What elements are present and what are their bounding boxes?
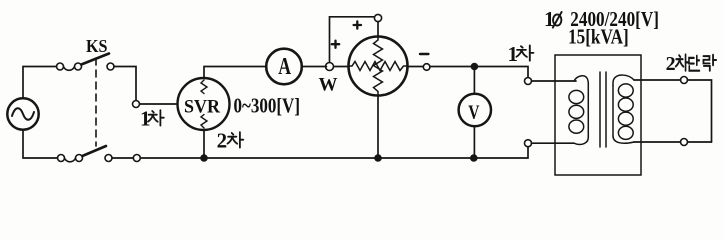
transformer secondary coil top hook	[613, 75, 634, 85]
transformer box	[555, 55, 641, 175]
terminal secondary top	[681, 77, 688, 84]
transformer secondary coil return line	[612, 86, 614, 137]
wire to V junction and transformer corner	[430, 67, 528, 78]
wire squiggle top	[64, 67, 75, 71]
switch KS top pole pivot	[75, 63, 82, 70]
label plus left of wattmeter	[332, 41, 339, 48]
wire secondary top out of box	[634, 79, 681, 81]
wire W right	[408, 66, 424, 68]
svg-text:2: 2	[217, 129, 228, 153]
terminal 1cha SVR input	[133, 101, 140, 108]
wire to SVR left	[140, 103, 178, 105]
switch KS linkage dashed	[95, 58, 97, 146]
transformer secondary coil loop 2	[618, 98, 633, 111]
transformer secondary coil loop 3	[618, 112, 633, 125]
wire V bottom to rail	[473, 126, 475, 158]
wire SVR bottom	[203, 130, 205, 158]
ac source G	[7, 98, 38, 129]
svg-text:A: A	[278, 54, 291, 80]
svg-text:1: 1	[140, 106, 151, 130]
label 2cha danrak secondary short	[666, 53, 716, 75]
label 1cha at SVR input	[140, 106, 164, 130]
junction V top	[471, 63, 479, 71]
wattmeter left terminal +	[326, 63, 334, 71]
wire secondary bottom out of box	[634, 141, 681, 143]
wire voltage terminal down to W top	[377, 22, 379, 37]
switch KS bottom contact 2	[105, 155, 112, 162]
wattmeter voltage branch wire	[330, 17, 375, 63]
transformer primary coil loop 3	[569, 120, 584, 133]
svg-text:2: 2	[666, 53, 676, 75]
svg-text:KS: KS	[86, 36, 108, 56]
wire V junction down	[473, 67, 475, 94]
wattmeter vertical zigzag	[374, 37, 383, 96]
wire W bottom to rail	[377, 96, 379, 159]
junction W bottom	[374, 154, 382, 162]
switch KS bottom pole contact 1	[58, 155, 65, 162]
terminal transformer primary bottom	[525, 140, 532, 147]
wire bottom rail W to transformer corner	[378, 147, 528, 158]
wire terminal to W	[334, 66, 349, 68]
switch KS top pole contact 1	[57, 63, 64, 70]
ac source sine	[12, 108, 34, 120]
SVR circle U1	[178, 78, 230, 130]
transformer core line 2	[605, 72, 607, 147]
voltmeter V	[459, 94, 491, 126]
terminal bottom SVR input	[133, 155, 140, 162]
wire primary top into box	[532, 80, 577, 82]
SVR lower squiggle	[201, 115, 207, 129]
wire secondary top to short link	[688, 80, 712, 142]
wattmeter horizontal zigzag	[349, 62, 408, 71]
wire top to SVR corner	[114, 67, 136, 101]
transformer secondary coil bottom hook	[613, 136, 634, 143]
transformer primary coil return line	[587, 86, 589, 137]
label minus right of wattmeter	[420, 53, 428, 55]
label plus top of wattmeter	[354, 21, 361, 28]
SVR upper squiggle	[201, 80, 207, 94]
transformer primary coil top hook	[574, 76, 588, 86]
phi symbol	[553, 12, 562, 28]
wire A to W terminal	[302, 66, 327, 68]
transformer secondary coil loop 4	[618, 126, 633, 139]
junction SVR bottom	[200, 154, 208, 162]
terminal transformer primary top	[525, 78, 532, 85]
svg-text:1: 1	[508, 42, 519, 66]
wire source bottom	[23, 130, 58, 158]
junction V bottom	[470, 154, 478, 162]
wire SVR top to A	[204, 67, 266, 79]
svg-text:0~300[V]: 0~300[V]	[234, 94, 301, 118]
switch KS top contact 2	[107, 63, 114, 70]
switch KS bottom blade	[82, 146, 106, 156]
transformer secondary coil loop 1	[618, 84, 633, 97]
terminal W minus	[423, 64, 430, 71]
wire bottom contact to terminal	[112, 157, 133, 159]
transformer primary coil loop 1	[569, 90, 584, 103]
svg-text:W: W	[319, 75, 338, 96]
svg-text:15[kVA]: 15[kVA]	[568, 25, 629, 49]
svg-text:SVR: SVR	[184, 96, 220, 117]
wire bottom rail to W junction	[140, 157, 378, 159]
wire squiggle bottom	[65, 158, 76, 162]
switch KS bottom pole pivot	[76, 155, 83, 162]
label 2cha at SVR output	[217, 129, 244, 153]
transformer primary coil loop 2	[569, 105, 584, 118]
ammeter A	[266, 49, 302, 85]
transformer primary coil bottom hook	[574, 137, 588, 144]
wattmeter W circle	[349, 37, 408, 96]
transformer core line 1	[599, 72, 601, 147]
wire primary bottom into box	[532, 142, 575, 144]
wattmeter voltage terminal	[374, 14, 381, 21]
svg-text:V: V	[468, 103, 479, 124]
terminal secondary bottom	[681, 139, 688, 146]
label 1cha at transformer primary	[508, 42, 534, 66]
wire secondary bottom to short link	[688, 141, 712, 143]
switch KS top blade	[81, 54, 109, 65]
wire source top	[23, 67, 57, 99]
